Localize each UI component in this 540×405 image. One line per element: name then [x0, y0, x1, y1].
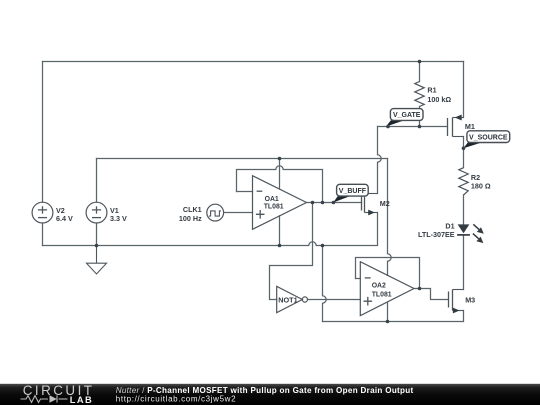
node flag V_GATE	[386, 109, 423, 127]
wire: OA2 V- power pin to bottom bus	[387, 302, 389, 321]
wire: 3.3V rail horizontal (V1 net)	[97, 158, 388, 160]
svg-text:180 Ω: 180 Ω	[471, 182, 491, 191]
transistor M3 (N-channel)	[449, 290, 464, 311]
svg-text:M1: M1	[465, 122, 475, 131]
node: OA1 out / feedback	[321, 201, 325, 205]
wire: rail down to M1 source leg	[463, 62, 465, 118]
wire: V2 bottom lead to ground bus	[42, 223, 44, 246]
wire: V_GATE net from R1 to M1 gate	[378, 126, 448, 128]
LED D1	[457, 224, 484, 243]
wire: V1 top lead up to 3.3V rail	[96, 159, 98, 203]
op-amp OA2	[360, 262, 414, 316]
node flag V_BUFF	[333, 184, 368, 202]
node: OA2 out / feedback	[418, 287, 422, 291]
inverter NOT1	[277, 286, 308, 312]
wire: M1 drain down to R2	[463, 137, 465, 168]
node: R1 top / rail	[418, 60, 422, 64]
svg-text:http://circuitlab.com/c3jw5w2: http://circuitlab.com/c3jw5w2	[116, 394, 236, 403]
resistor R2	[459, 168, 468, 195]
svg-text:3.3 V: 3.3 V	[110, 214, 127, 223]
wire: R1 bottom lead	[419, 107, 421, 127]
svg-text:LAB: LAB	[70, 395, 93, 405]
svg-text:LTL-307EE: LTL-307EE	[418, 230, 455, 239]
label OA2 TL081	[372, 283, 392, 299]
clock source CLK1	[207, 204, 224, 221]
wire: V_GATE drop to M2 drain with hop over 3.3V rail	[378, 127, 382, 194]
wire: OA2 output jog to M3 gate	[414, 289, 449, 300]
node flag V_SOURCE	[463, 131, 509, 149]
label OA1 TL081	[264, 196, 284, 210]
svg-text:TL081: TL081	[264, 203, 284, 210]
node: 3.3V rail / OA1 V+	[278, 157, 282, 161]
svg-text:TL081: TL081	[372, 291, 392, 298]
svg-text:OA2: OA2	[372, 283, 386, 290]
label D1 LTL-307EE	[418, 222, 455, 239]
svg-text:100 Hz: 100 Hz	[179, 214, 202, 223]
ground symbol	[87, 246, 107, 275]
resistor R1	[415, 82, 424, 107]
label V2 6.4 V	[56, 206, 73, 223]
wire: D1 cathode down to M3 drain	[463, 236, 465, 290]
svg-text:6.4 V: 6.4 V	[56, 214, 73, 223]
CircuitLab logo	[21, 383, 95, 405]
wire: OA1 - input stub	[237, 191, 253, 193]
node: V_GATE flag attach	[386, 125, 390, 129]
svg-text:CLK1: CLK1	[183, 205, 202, 214]
node: R1 bottom / gate wire	[418, 125, 422, 129]
wire: OA1 V- power pin to ground bus	[279, 216, 281, 246]
voltage source V2	[32, 202, 53, 223]
wire: OA1 output branch down to NOT1 input	[270, 203, 313, 300]
svg-text:V_SOURCE: V_SOURCE	[469, 134, 508, 141]
node: ground bus / OA1 V-	[278, 244, 282, 248]
wire: R2 to D1 anode	[463, 195, 465, 224]
svg-text:V_GATE: V_GATE	[393, 112, 421, 119]
wire: OA1 V+ power pin	[279, 159, 281, 190]
wire: ground branch down to bottom bus with hop over NOT1 output	[323, 246, 327, 322]
svg-text:100 kΩ: 100 kΩ	[427, 95, 451, 104]
wire: OA2 - input stub	[356, 278, 361, 280]
transistor M2 (N-channel)	[362, 194, 378, 213]
node: V_BUFF flag attach	[332, 201, 336, 205]
svg-text:OA1: OA1	[265, 196, 279, 203]
label R2 180 Ohm	[471, 173, 491, 191]
wire: OA1 output to M2 gate (V_BUFF net)	[307, 202, 362, 204]
node: V_SOURCE flag attach	[462, 146, 466, 150]
node: OA1 out / NOT1 branch	[311, 201, 315, 205]
svg-text:M2: M2	[380, 199, 390, 208]
wire: V1 bottom lead	[96, 223, 98, 246]
node: ground bus / V1	[95, 244, 99, 248]
wire: bottom ground bus up to M3 source	[323, 311, 464, 322]
wire: CLK1 output to OA1 + input	[224, 212, 253, 214]
svg-text:M3: M3	[465, 295, 475, 304]
node: ground bus / ground branch	[321, 244, 325, 248]
wire: 3.3V rail down to OA2 V+ pin with hop over OA2 feedback	[388, 159, 392, 276]
wire: R1 top lead	[419, 62, 421, 82]
wire: OA1 feedback loop with hop over V+ pin	[237, 166, 323, 203]
wire: NOT1 output to OA2 + input	[308, 299, 361, 301]
footer bar	[0, 384, 540, 405]
label CLK1 100 Hz	[179, 205, 202, 223]
transistor M1 (P-channel)	[448, 118, 464, 137]
wire: top supply rail (V2+ bus)	[43, 61, 464, 63]
wire: V2 top lead up to supply rail	[42, 62, 44, 203]
node: bottom bus / OA2 V-	[386, 320, 390, 324]
svg-text:V_BUFF: V_BUFF	[339, 188, 367, 195]
wire: OA2 feedback loop	[356, 258, 420, 289]
svg-text:NOT1: NOT1	[278, 295, 297, 304]
op-amp OA1	[253, 176, 307, 230]
label R1 100 kOhm	[427, 86, 451, 104]
label V1 3.3 V	[110, 206, 127, 223]
svg-text:R1: R1	[427, 86, 436, 95]
wire: ground bus with hop over NOT1 branch, up to M2 source	[43, 213, 378, 246]
voltage source V1	[86, 202, 107, 223]
